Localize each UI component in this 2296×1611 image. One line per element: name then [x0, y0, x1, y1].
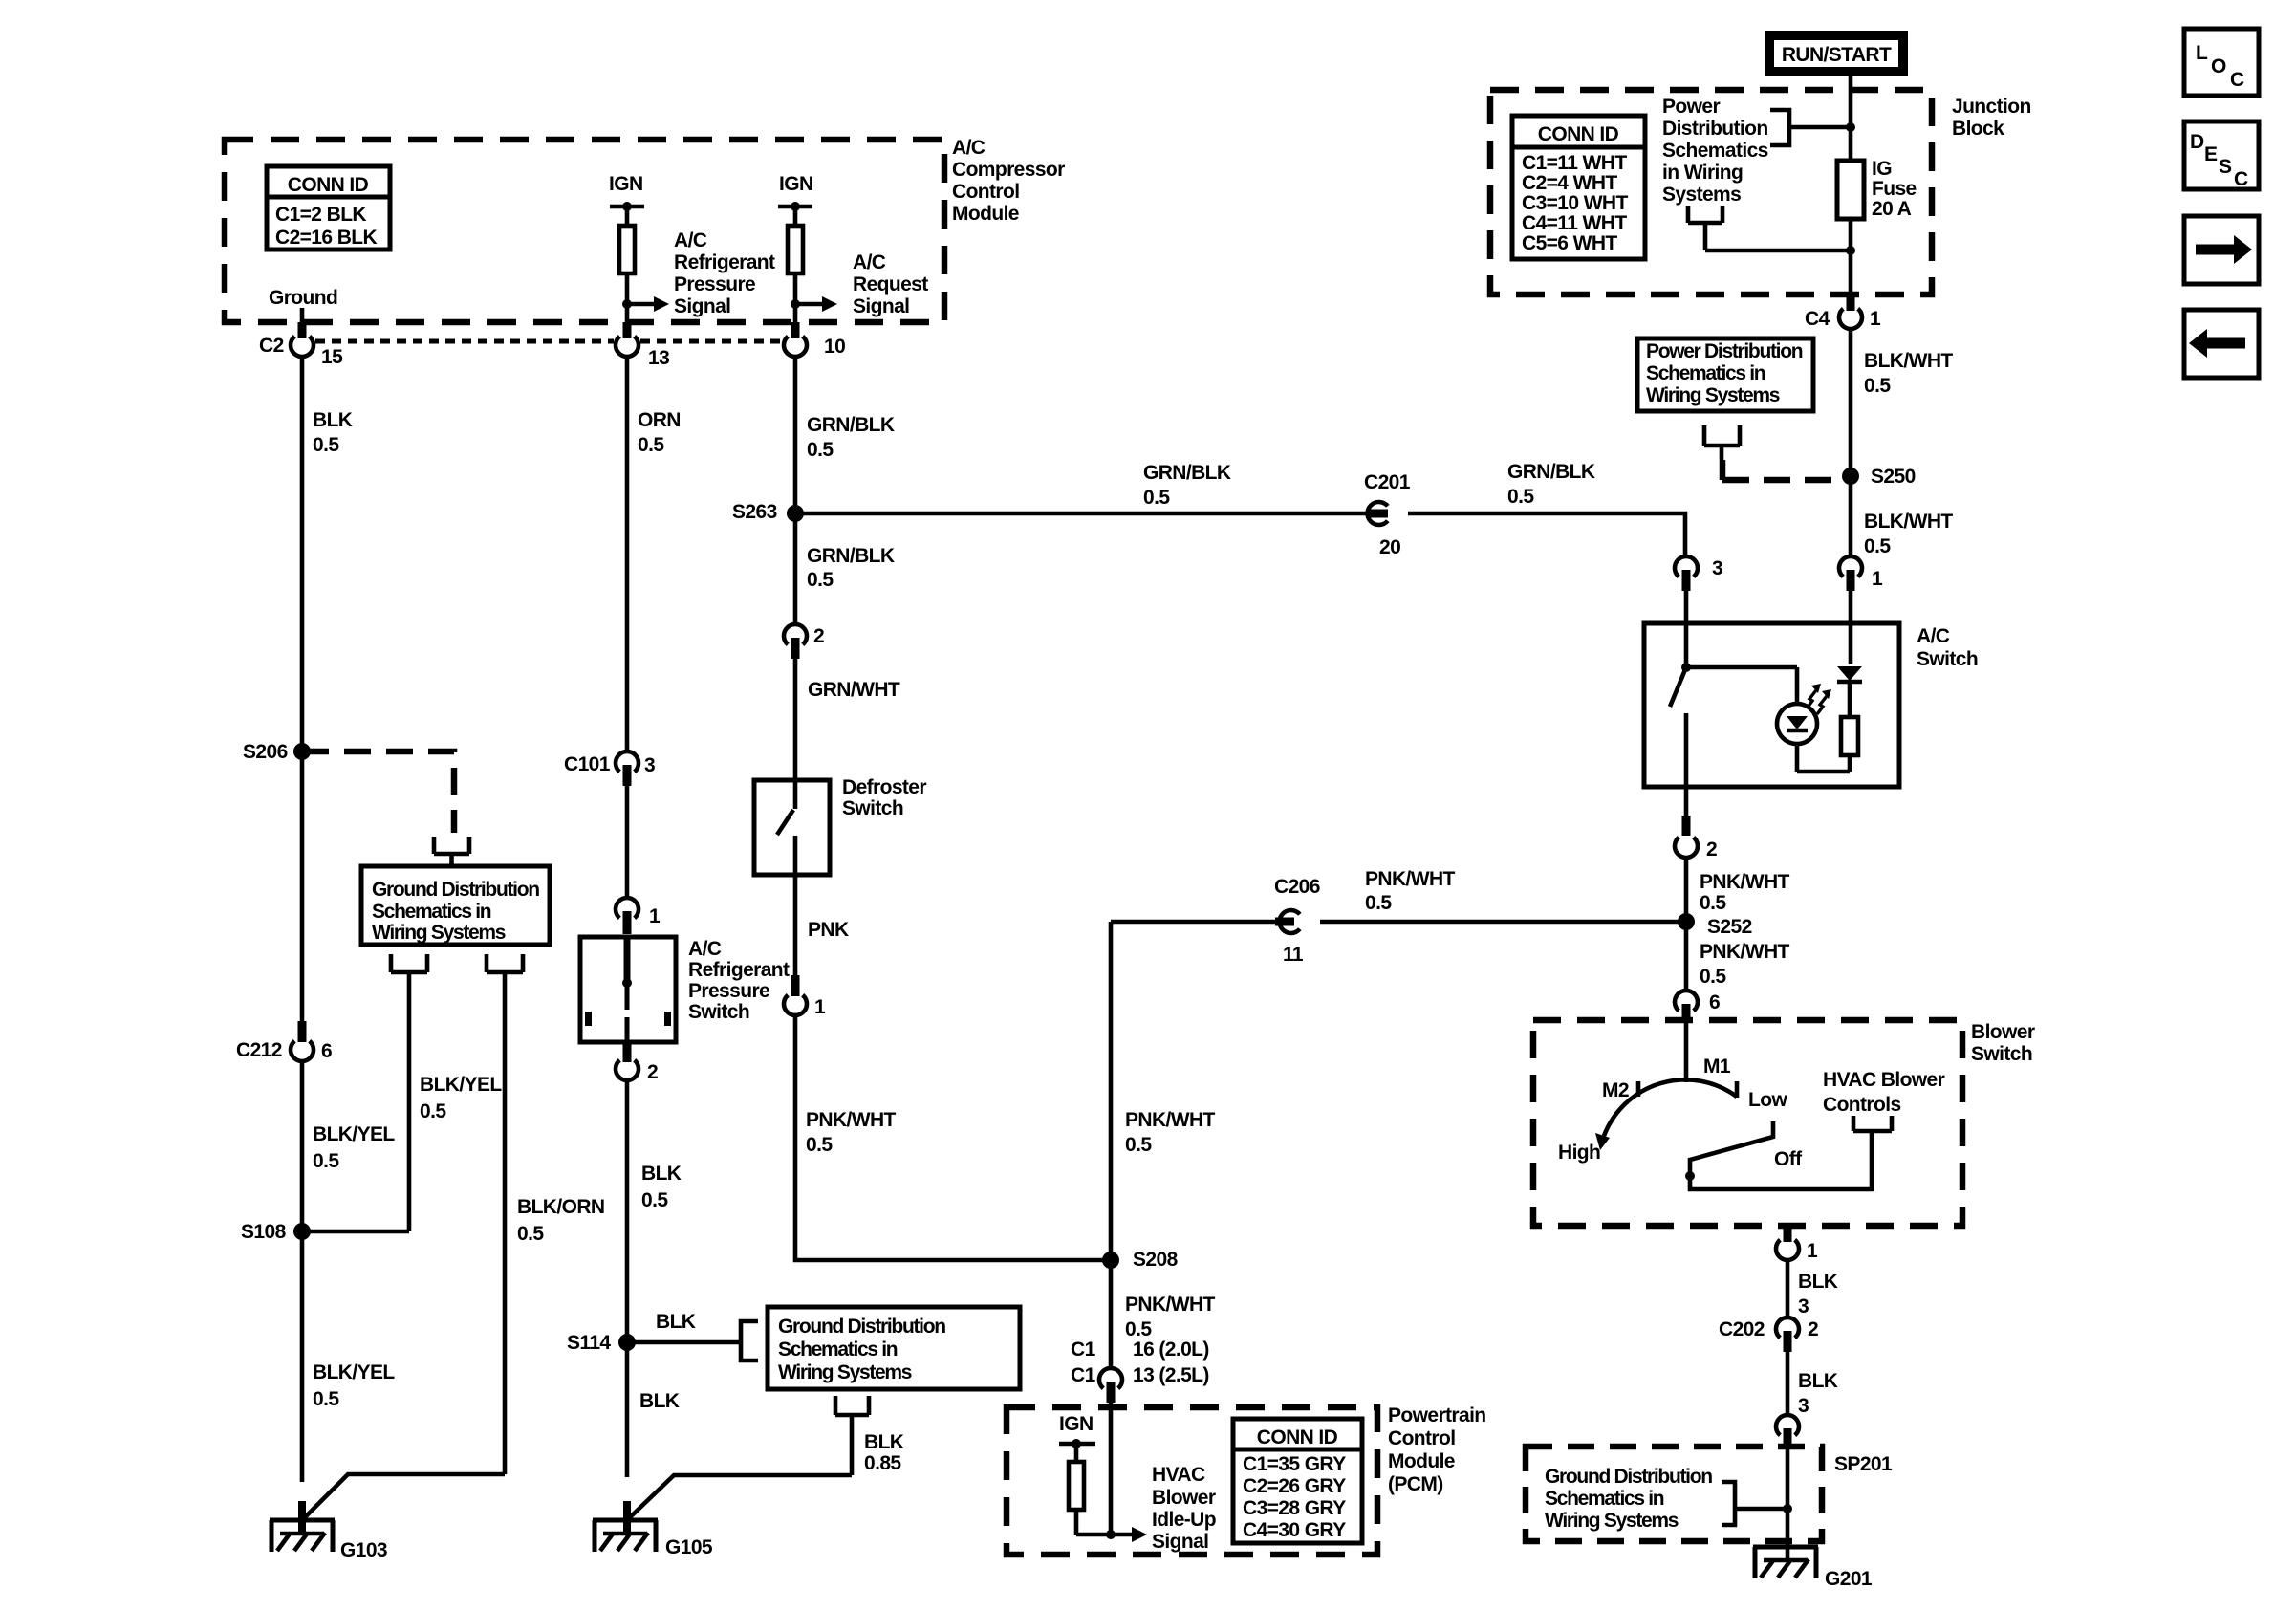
svg-text:BLK: BLK [1798, 1370, 1838, 1392]
svg-text:0.85: 0.85 [864, 1452, 901, 1474]
svg-text:0.5: 0.5 [806, 1134, 833, 1156]
svg-text:C5=6 WHT: C5=6 WHT [1522, 232, 1617, 254]
svg-text:BLK: BLK [639, 1390, 680, 1412]
svg-text:Schematics: Schematics [1662, 140, 1768, 162]
svg-text:C3=10 WHT: C3=10 WHT [1522, 192, 1628, 214]
svg-text:PNK/WHT: PNK/WHT [1125, 1294, 1216, 1316]
svg-text:2: 2 [813, 625, 824, 647]
svg-text:3: 3 [1798, 1395, 1809, 1417]
svg-text:PNK/WHT: PNK/WHT [1125, 1109, 1216, 1131]
svg-text:HVAC: HVAC [1152, 1464, 1205, 1486]
svg-text:Ground Distribution: Ground Distribution [778, 1316, 945, 1338]
svg-text:G103: G103 [340, 1539, 387, 1561]
svg-text:2: 2 [1808, 1318, 1818, 1340]
svg-text:0.5: 0.5 [807, 439, 834, 461]
svg-text:C: C [2230, 69, 2244, 91]
svg-text:0.5: 0.5 [1143, 487, 1170, 509]
svg-text:Low: Low [1748, 1089, 1787, 1111]
svg-text:C: C [2234, 168, 2248, 190]
svg-text:Pressure: Pressure [674, 273, 755, 295]
svg-text:Defroster: Defroster [842, 776, 926, 798]
svg-text:CONN ID: CONN ID [1257, 1426, 1338, 1448]
svg-text:1: 1 [1870, 308, 1881, 330]
svg-text:O: O [2211, 55, 2226, 77]
svg-text:Wiring Systems: Wiring Systems [1545, 1510, 1679, 1532]
svg-text:0.5: 0.5 [638, 434, 664, 456]
svg-text:Request: Request [853, 273, 928, 295]
svg-text:S263: S263 [732, 501, 777, 523]
svg-text:PNK/WHT: PNK/WHT [806, 1109, 897, 1131]
svg-text:0.5: 0.5 [1125, 1134, 1152, 1156]
svg-text:0.5: 0.5 [807, 569, 834, 591]
svg-text:Ground Distribution: Ground Distribution [1545, 1466, 1712, 1488]
svg-text:S108: S108 [241, 1221, 287, 1243]
svg-text:0.5: 0.5 [1864, 535, 1891, 557]
svg-text:0.5: 0.5 [1864, 375, 1891, 397]
svg-text:Block: Block [1952, 118, 2004, 140]
svg-text:Schematics in: Schematics in [1545, 1488, 1664, 1510]
svg-text:C2=4 WHT: C2=4 WHT [1522, 172, 1617, 194]
svg-text:ORN: ORN [638, 409, 681, 431]
svg-text:Wiring Systems: Wiring Systems [372, 922, 506, 944]
svg-text:13 (2.5L): 13 (2.5L) [1133, 1364, 1209, 1386]
svg-text:Schematics in: Schematics in [1646, 362, 1765, 384]
svg-text:C4: C4 [1805, 308, 1830, 330]
svg-text:in Wiring: in Wiring [1662, 162, 1743, 184]
svg-text:C2=16 BLK: C2=16 BLK [275, 227, 377, 249]
svg-text:PNK/WHT: PNK/WHT [1365, 868, 1456, 890]
svg-text:Ground Distribution: Ground Distribution [372, 879, 539, 901]
svg-text:G201: G201 [1825, 1568, 1873, 1590]
svg-text:Ground: Ground [269, 287, 337, 309]
svg-text:20: 20 [1379, 536, 1400, 558]
svg-text:BLK: BLK [641, 1163, 682, 1185]
svg-text:Switch: Switch [842, 797, 903, 819]
svg-text:CONN ID: CONN ID [1538, 123, 1619, 145]
svg-text:C202: C202 [1719, 1318, 1765, 1340]
svg-text:10: 10 [824, 336, 845, 358]
svg-text:2: 2 [1706, 838, 1717, 860]
svg-text:IGN: IGN [1059, 1413, 1094, 1435]
svg-text:C3=28 GRY: C3=28 GRY [1243, 1497, 1346, 1519]
svg-text:Systems: Systems [1662, 184, 1741, 206]
svg-text:Pressure: Pressure [688, 980, 769, 1002]
svg-text:C101: C101 [564, 753, 611, 775]
svg-text:Signal: Signal [1152, 1531, 1208, 1553]
svg-text:3: 3 [644, 754, 655, 776]
svg-text:Switch: Switch [1917, 648, 1978, 670]
svg-text:Junction: Junction [1952, 96, 2031, 118]
svg-text:Wiring Systems: Wiring Systems [1646, 384, 1780, 406]
svg-text:C4=30 GRY: C4=30 GRY [1243, 1519, 1346, 1541]
svg-text:GRN/WHT: GRN/WHT [808, 679, 900, 701]
svg-text:Signal: Signal [853, 295, 909, 317]
svg-text:PNK: PNK [808, 919, 849, 941]
svg-text:S206: S206 [243, 741, 288, 763]
svg-text:Refrigerant: Refrigerant [688, 959, 790, 981]
svg-text:0.5: 0.5 [517, 1223, 544, 1245]
svg-text:IGN: IGN [779, 173, 813, 195]
svg-text:C1: C1 [1071, 1364, 1096, 1386]
svg-text:Module: Module [952, 203, 1019, 225]
svg-text:GRN/BLK: GRN/BLK [1507, 461, 1595, 483]
svg-text:BLK/YEL: BLK/YEL [313, 1123, 395, 1145]
svg-text:6: 6 [1709, 991, 1720, 1013]
svg-text:BLK/YEL: BLK/YEL [420, 1074, 502, 1096]
svg-text:0.5: 0.5 [1125, 1318, 1152, 1340]
svg-text:A/C: A/C [688, 938, 722, 960]
svg-text:M2: M2 [1602, 1079, 1629, 1101]
svg-text:E: E [2204, 143, 2218, 165]
svg-text:C201: C201 [1364, 471, 1411, 493]
svg-text:C2: C2 [259, 335, 284, 357]
svg-text:Controls: Controls [1823, 1094, 1901, 1116]
svg-text:11: 11 [1283, 944, 1304, 966]
svg-text:Schematics in: Schematics in [778, 1339, 898, 1361]
svg-text:1: 1 [649, 905, 661, 927]
svg-text:Refrigerant: Refrigerant [674, 251, 775, 273]
svg-text:High: High [1558, 1142, 1600, 1164]
svg-text:BLK: BLK [313, 409, 353, 431]
svg-text:CONN ID: CONN ID [288, 174, 369, 196]
svg-text:16 (2.0L): 16 (2.0L) [1133, 1339, 1209, 1361]
svg-text:0.5: 0.5 [1507, 486, 1534, 508]
svg-text:C2=26 GRY: C2=26 GRY [1243, 1475, 1346, 1497]
svg-text:C1: C1 [1071, 1339, 1096, 1361]
svg-text:A/C: A/C [952, 137, 986, 159]
svg-text:Schematics in: Schematics in [372, 901, 491, 923]
svg-text:RUN/START: RUN/START [1782, 44, 1892, 66]
svg-text:Off: Off [1774, 1148, 1803, 1170]
svg-text:A/C: A/C [674, 229, 707, 251]
svg-text:0.5: 0.5 [313, 434, 339, 456]
svg-text:Control: Control [1388, 1427, 1455, 1449]
svg-text:BLK/WHT: BLK/WHT [1864, 350, 1953, 372]
svg-text:A/C: A/C [1917, 625, 1950, 647]
svg-text:0.5: 0.5 [313, 1388, 339, 1410]
svg-text:IGN: IGN [609, 173, 643, 195]
svg-text:C1=35 GRY: C1=35 GRY [1243, 1453, 1346, 1475]
svg-text:0.5: 0.5 [1365, 892, 1392, 914]
svg-text:HVAC Blower: HVAC Blower [1823, 1069, 1945, 1091]
svg-text:BLK/ORN: BLK/ORN [517, 1196, 604, 1218]
svg-text:C1=11 WHT: C1=11 WHT [1522, 152, 1627, 174]
svg-text:BLK/YEL: BLK/YEL [313, 1361, 395, 1383]
svg-text:PNK/WHT: PNK/WHT [1700, 941, 1790, 963]
svg-text:Signal: Signal [674, 295, 730, 317]
svg-text:BLK/WHT: BLK/WHT [1864, 511, 1953, 533]
svg-text:2: 2 [647, 1061, 658, 1083]
svg-text:13: 13 [648, 347, 669, 369]
svg-text:D: D [2190, 131, 2204, 153]
svg-text:Distribution: Distribution [1662, 118, 1768, 140]
svg-text:Blower: Blower [1152, 1487, 1216, 1509]
svg-text:C212: C212 [236, 1039, 282, 1061]
svg-text:GRN/BLK: GRN/BLK [807, 545, 895, 567]
svg-text:Idle-Up: Idle-Up [1152, 1509, 1216, 1531]
svg-text:0.5: 0.5 [420, 1100, 446, 1122]
svg-text:BLK: BLK [864, 1431, 904, 1453]
svg-text:S250: S250 [1871, 466, 1916, 488]
svg-text:GRN/BLK: GRN/BLK [1143, 462, 1231, 484]
svg-text:S208: S208 [1133, 1249, 1179, 1271]
svg-text:3: 3 [1712, 557, 1722, 579]
svg-text:S252: S252 [1707, 916, 1752, 938]
svg-text:C1=2 BLK: C1=2 BLK [275, 204, 366, 226]
svg-text:SP201: SP201 [1834, 1453, 1893, 1475]
svg-text:3: 3 [1798, 1295, 1809, 1317]
svg-text:S: S [2219, 156, 2232, 178]
svg-text:20 A: 20 A [1872, 198, 1912, 220]
svg-text:Control: Control [952, 181, 1019, 203]
svg-text:0.5: 0.5 [1700, 892, 1726, 914]
svg-text:M1: M1 [1703, 1056, 1731, 1078]
svg-text:0.5: 0.5 [1700, 966, 1726, 988]
svg-text:(PCM): (PCM) [1388, 1473, 1443, 1495]
svg-text:15: 15 [321, 346, 343, 368]
svg-text:Blower: Blower [1971, 1021, 2035, 1043]
svg-text:BLK: BLK [656, 1311, 696, 1333]
svg-text:C206: C206 [1274, 876, 1320, 898]
svg-text:GRN/BLK: GRN/BLK [807, 414, 895, 436]
svg-text:PNK/WHT: PNK/WHT [1700, 871, 1790, 893]
svg-text:0.5: 0.5 [641, 1189, 668, 1211]
svg-text:IG: IG [1872, 158, 1892, 180]
svg-text:Wiring Systems: Wiring Systems [778, 1361, 912, 1383]
svg-text:1: 1 [1807, 1240, 1818, 1262]
svg-text:S114: S114 [567, 1332, 611, 1354]
svg-text:L: L [2196, 42, 2208, 64]
svg-text:Power Distribution: Power Distribution [1646, 340, 1803, 362]
svg-text:1: 1 [814, 996, 826, 1018]
svg-text:Switch: Switch [688, 1001, 749, 1023]
svg-text:Module: Module [1388, 1450, 1455, 1472]
svg-text:Compressor: Compressor [952, 159, 1065, 181]
svg-text:G105: G105 [665, 1536, 713, 1558]
svg-text:6: 6 [321, 1040, 332, 1062]
svg-text:Power: Power [1662, 96, 1720, 118]
svg-text:Switch: Switch [1971, 1043, 2032, 1065]
svg-text:Fuse: Fuse [1872, 178, 1917, 200]
svg-text:Powertrain: Powertrain [1388, 1404, 1486, 1426]
svg-text:1: 1 [1872, 568, 1883, 590]
svg-text:0.5: 0.5 [313, 1150, 339, 1172]
svg-text:C4=11 WHT: C4=11 WHT [1522, 212, 1627, 234]
svg-text:BLK: BLK [1798, 1271, 1838, 1293]
svg-text:A/C: A/C [853, 251, 886, 273]
